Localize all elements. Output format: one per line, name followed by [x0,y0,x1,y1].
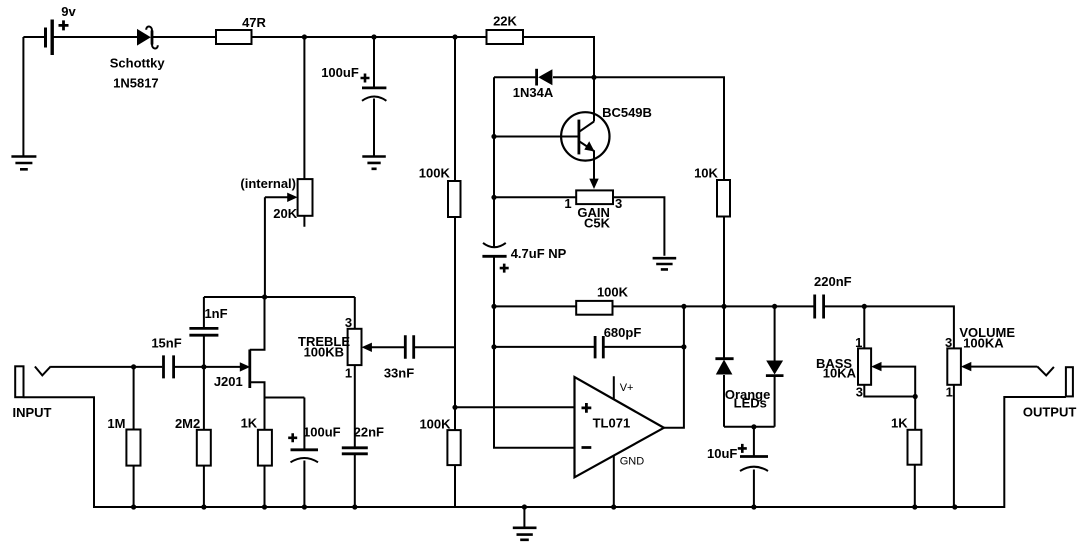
svg-text:C5K: C5K [584,215,611,230]
svg-text:1nF: 1nF [204,306,227,321]
svg-text:100KB: 100KB [304,345,344,360]
svg-text:680pF: 680pF [604,325,642,340]
svg-text:10uF: 10uF [707,446,737,461]
svg-text:220nF: 220nF [814,274,852,289]
svg-text:Schottky: Schottky [110,56,166,71]
svg-text:100K: 100K [419,416,451,431]
svg-text:2M2: 2M2 [175,416,200,431]
svg-text:GND: GND [620,455,645,467]
svg-text:OUTPUT: OUTPUT [1023,404,1077,419]
svg-text:15nF: 15nF [151,336,181,351]
svg-text:3: 3 [945,335,952,350]
svg-text:100K: 100K [597,285,629,300]
svg-text:22nF: 22nF [354,425,384,440]
svg-text:100uF: 100uF [303,425,341,440]
svg-text:1N34A: 1N34A [513,85,554,100]
svg-text:V+: V+ [620,382,634,394]
svg-text:100uF: 100uF [321,65,359,80]
svg-text:33nF: 33nF [384,365,414,380]
svg-text:INPUT: INPUT [13,405,52,420]
svg-text:1N5817: 1N5817 [113,75,159,90]
svg-text:10KA: 10KA [823,366,857,381]
svg-text:100K: 100K [419,166,451,181]
svg-text:1: 1 [345,366,352,381]
svg-text:(internal): (internal) [240,176,296,191]
svg-text:1: 1 [855,335,862,350]
svg-text:10K: 10K [694,166,718,181]
svg-text:3: 3 [615,196,622,211]
svg-text:LEDs: LEDs [734,395,767,410]
svg-text:47R: 47R [242,15,266,30]
svg-text:1: 1 [946,385,953,400]
svg-text:1: 1 [564,196,571,211]
svg-text:9v: 9v [61,4,76,19]
svg-text:3: 3 [856,385,863,400]
svg-text:BC549B: BC549B [602,105,652,120]
svg-text:1M: 1M [107,416,125,431]
svg-text:1K: 1K [241,416,258,431]
svg-text:1K: 1K [891,415,908,430]
svg-text:22K: 22K [493,14,517,29]
svg-text:3: 3 [345,315,352,330]
svg-text:4.7uF NP: 4.7uF NP [511,246,567,261]
svg-text:TL071: TL071 [593,415,631,430]
svg-text:J201: J201 [214,374,243,389]
svg-text:100KA: 100KA [963,335,1004,350]
svg-text:20K: 20K [273,206,297,221]
